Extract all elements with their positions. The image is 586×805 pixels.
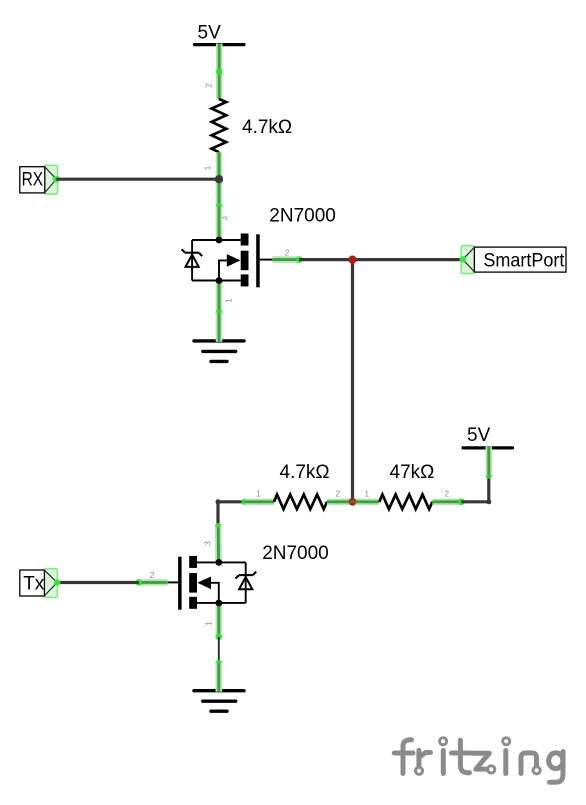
svg-text:5V: 5V [467,425,491,446]
svg-text:2: 2 [335,489,340,499]
endpoint marker R2 pin1 [242,498,249,505]
svg-text:3: 3 [203,541,213,546]
endpoint marker [296,256,303,263]
connector Tx label [20,569,61,598]
endpoint marker [215,660,222,667]
power +5V symbol right [462,425,515,450]
pin stub Q2 source (green) [216,603,223,637]
pin stub Q2 drain (green) [215,526,222,562]
pin stub ground (green) [216,663,223,692]
connector RX label [20,165,60,194]
wire to ground (green) [216,313,223,342]
pin stub Q1 drain (green) [216,207,223,241]
endpoint marker [216,309,223,316]
fritzing logo [394,738,563,783]
value label 4.7k (R2) [280,462,330,483]
resistor R3 47k zigzag [379,495,432,510]
wire junction to middle row (vertical) [351,260,354,502]
wire Tx to Q2 gate [57,581,139,584]
pin number 3 of Q2 [203,541,213,546]
wire middle-row left corner [216,499,246,524]
pin stub Q1 source (green) [216,281,223,313]
svg-text:4.7kΩ: 4.7kΩ [280,462,330,483]
svg-text:2: 2 [150,570,155,580]
svg-text:1: 1 [203,621,213,626]
resistor R1 4.7k zigzag [212,99,227,152]
endpoint marker [135,579,142,586]
pin number 1 of R3 [364,489,369,499]
wire Q2 source to ground (thin) [218,637,220,663]
endpoint marker [215,634,222,641]
endpoint marker [216,203,223,210]
svg-text:2N7000: 2N7000 [269,206,336,227]
connector SmartPort label [459,246,566,274]
svg-text:4.7kΩ: 4.7kΩ [242,117,292,138]
endpoint marker Q2 drain wire [215,523,222,530]
pin stub Q2 gate (green) [139,579,168,586]
svg-text:2: 2 [444,489,449,499]
svg-text:RX: RX [22,170,44,191]
endpoint marker R3 pin2 [458,498,465,505]
part label 2N7000 (Q1) [269,206,336,227]
pin number 1 of Q2 [203,621,213,626]
transistor Q2 2N7000 (mirrored) [168,556,257,610]
pin stub R2 pin1 (green) [245,498,274,505]
junction dot red (node C) [349,498,357,506]
pin number 1 of Q1 [224,298,234,303]
pin stub Q1 gate (green) [272,256,299,263]
part label 2N7000 (Q2) [262,543,329,564]
wire R3 to 5V corner [461,475,491,504]
svg-text:SmartPort: SmartPort [483,251,565,272]
pin number 1 of R2 [256,489,261,499]
value label 4.7k (R1) [242,117,292,138]
ground symbol bottom [194,691,244,712]
svg-text:1: 1 [203,165,213,170]
pin number 2 of R3 [444,489,449,499]
wire R1 pin1 to node (green) [216,152,223,179]
svg-text:2: 2 [285,247,290,257]
pin number 2 of Q2 [150,570,155,580]
value label 47k (R3) [390,462,435,483]
wire 5V to R1 pin2 (green) [216,44,223,100]
svg-text:47kΩ: 47kΩ [390,462,435,483]
svg-text:Tx: Tx [23,573,45,594]
pin stub R3 pin1 (green) [353,498,380,505]
pin number 2 of Q1 [285,247,290,257]
wire to 5V (green) [485,447,492,476]
wire Q1 gate to SmartPort [299,258,463,261]
pin number 1 of R1 [203,165,213,170]
pin number 2 of R2 [335,489,340,499]
wire RX to node A [56,178,219,181]
transistor Q1 2N7000 [182,234,273,288]
svg-text:1: 1 [256,489,261,499]
node A junction dot [215,175,223,183]
wire node A to Q1 drain (green) [216,179,223,206]
svg-text:5V: 5V [198,23,222,44]
svg-text:1: 1 [364,489,369,499]
svg-text:1: 1 [224,298,234,303]
resistor R2 4.7k zigzag [274,495,327,510]
bendpoint marker on 5V wire [216,68,223,75]
pin number 3 of Q1 [219,216,229,221]
ground symbol top [194,341,244,362]
pin number 2 of R1 [204,83,214,88]
svg-text:2N7000: 2N7000 [262,543,329,564]
pin stub R2 pin2 (green) [327,498,353,505]
pin stub R3 pin2 (green) [432,498,461,505]
junction dot red (node B) [348,256,356,264]
svg-text:2: 2 [204,83,214,88]
power +5V symbol top [193,23,246,47]
endpoint marker [485,472,492,479]
